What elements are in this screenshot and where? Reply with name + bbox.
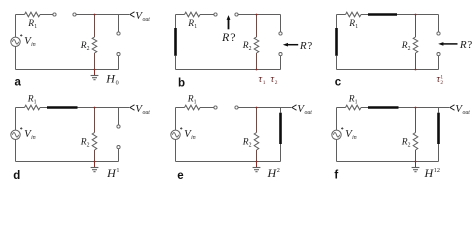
svg-text:2: 2 <box>277 167 280 174</box>
svg-text:c: c <box>335 76 342 88</box>
svg-text:1: 1 <box>355 100 358 106</box>
svg-text:in: in <box>191 135 196 141</box>
svg-text:in: in <box>352 135 357 141</box>
svg-text:2: 2 <box>440 80 443 86</box>
svg-text:1: 1 <box>34 24 37 30</box>
svg-text:2: 2 <box>408 46 411 52</box>
svg-text:1: 1 <box>263 80 266 86</box>
svg-text:2: 2 <box>249 46 252 52</box>
svg-text:out: out <box>305 110 313 116</box>
svg-text:b: b <box>178 77 185 89</box>
svg-text:?: ? <box>307 40 312 52</box>
svg-text:f: f <box>334 169 338 181</box>
svg-text:2: 2 <box>408 142 411 148</box>
svg-text:out: out <box>143 17 151 23</box>
svg-text:1: 1 <box>194 24 197 30</box>
svg-text:R: R <box>299 40 307 52</box>
svg-text:out: out <box>143 110 151 116</box>
svg-text:1: 1 <box>355 24 358 30</box>
svg-text:2: 2 <box>87 46 90 52</box>
svg-text:R: R <box>221 30 230 44</box>
svg-text:a: a <box>15 76 22 88</box>
svg-text:12: 12 <box>434 167 440 174</box>
svg-text:0: 0 <box>116 80 119 87</box>
svg-text:?: ? <box>230 30 235 44</box>
svg-text:out: out <box>463 110 471 116</box>
svg-text:?: ? <box>467 39 472 51</box>
svg-text:1: 1 <box>34 100 37 106</box>
svg-text:e: e <box>177 170 183 182</box>
svg-text:in: in <box>31 135 36 141</box>
svg-text:1: 1 <box>116 167 119 174</box>
svg-text:2: 2 <box>87 142 90 148</box>
svg-text:R: R <box>459 39 467 51</box>
svg-text:in: in <box>31 42 36 48</box>
svg-text:2: 2 <box>275 80 278 86</box>
svg-text:1: 1 <box>194 100 197 106</box>
svg-text:d: d <box>13 170 20 182</box>
svg-text:2: 2 <box>249 142 252 148</box>
